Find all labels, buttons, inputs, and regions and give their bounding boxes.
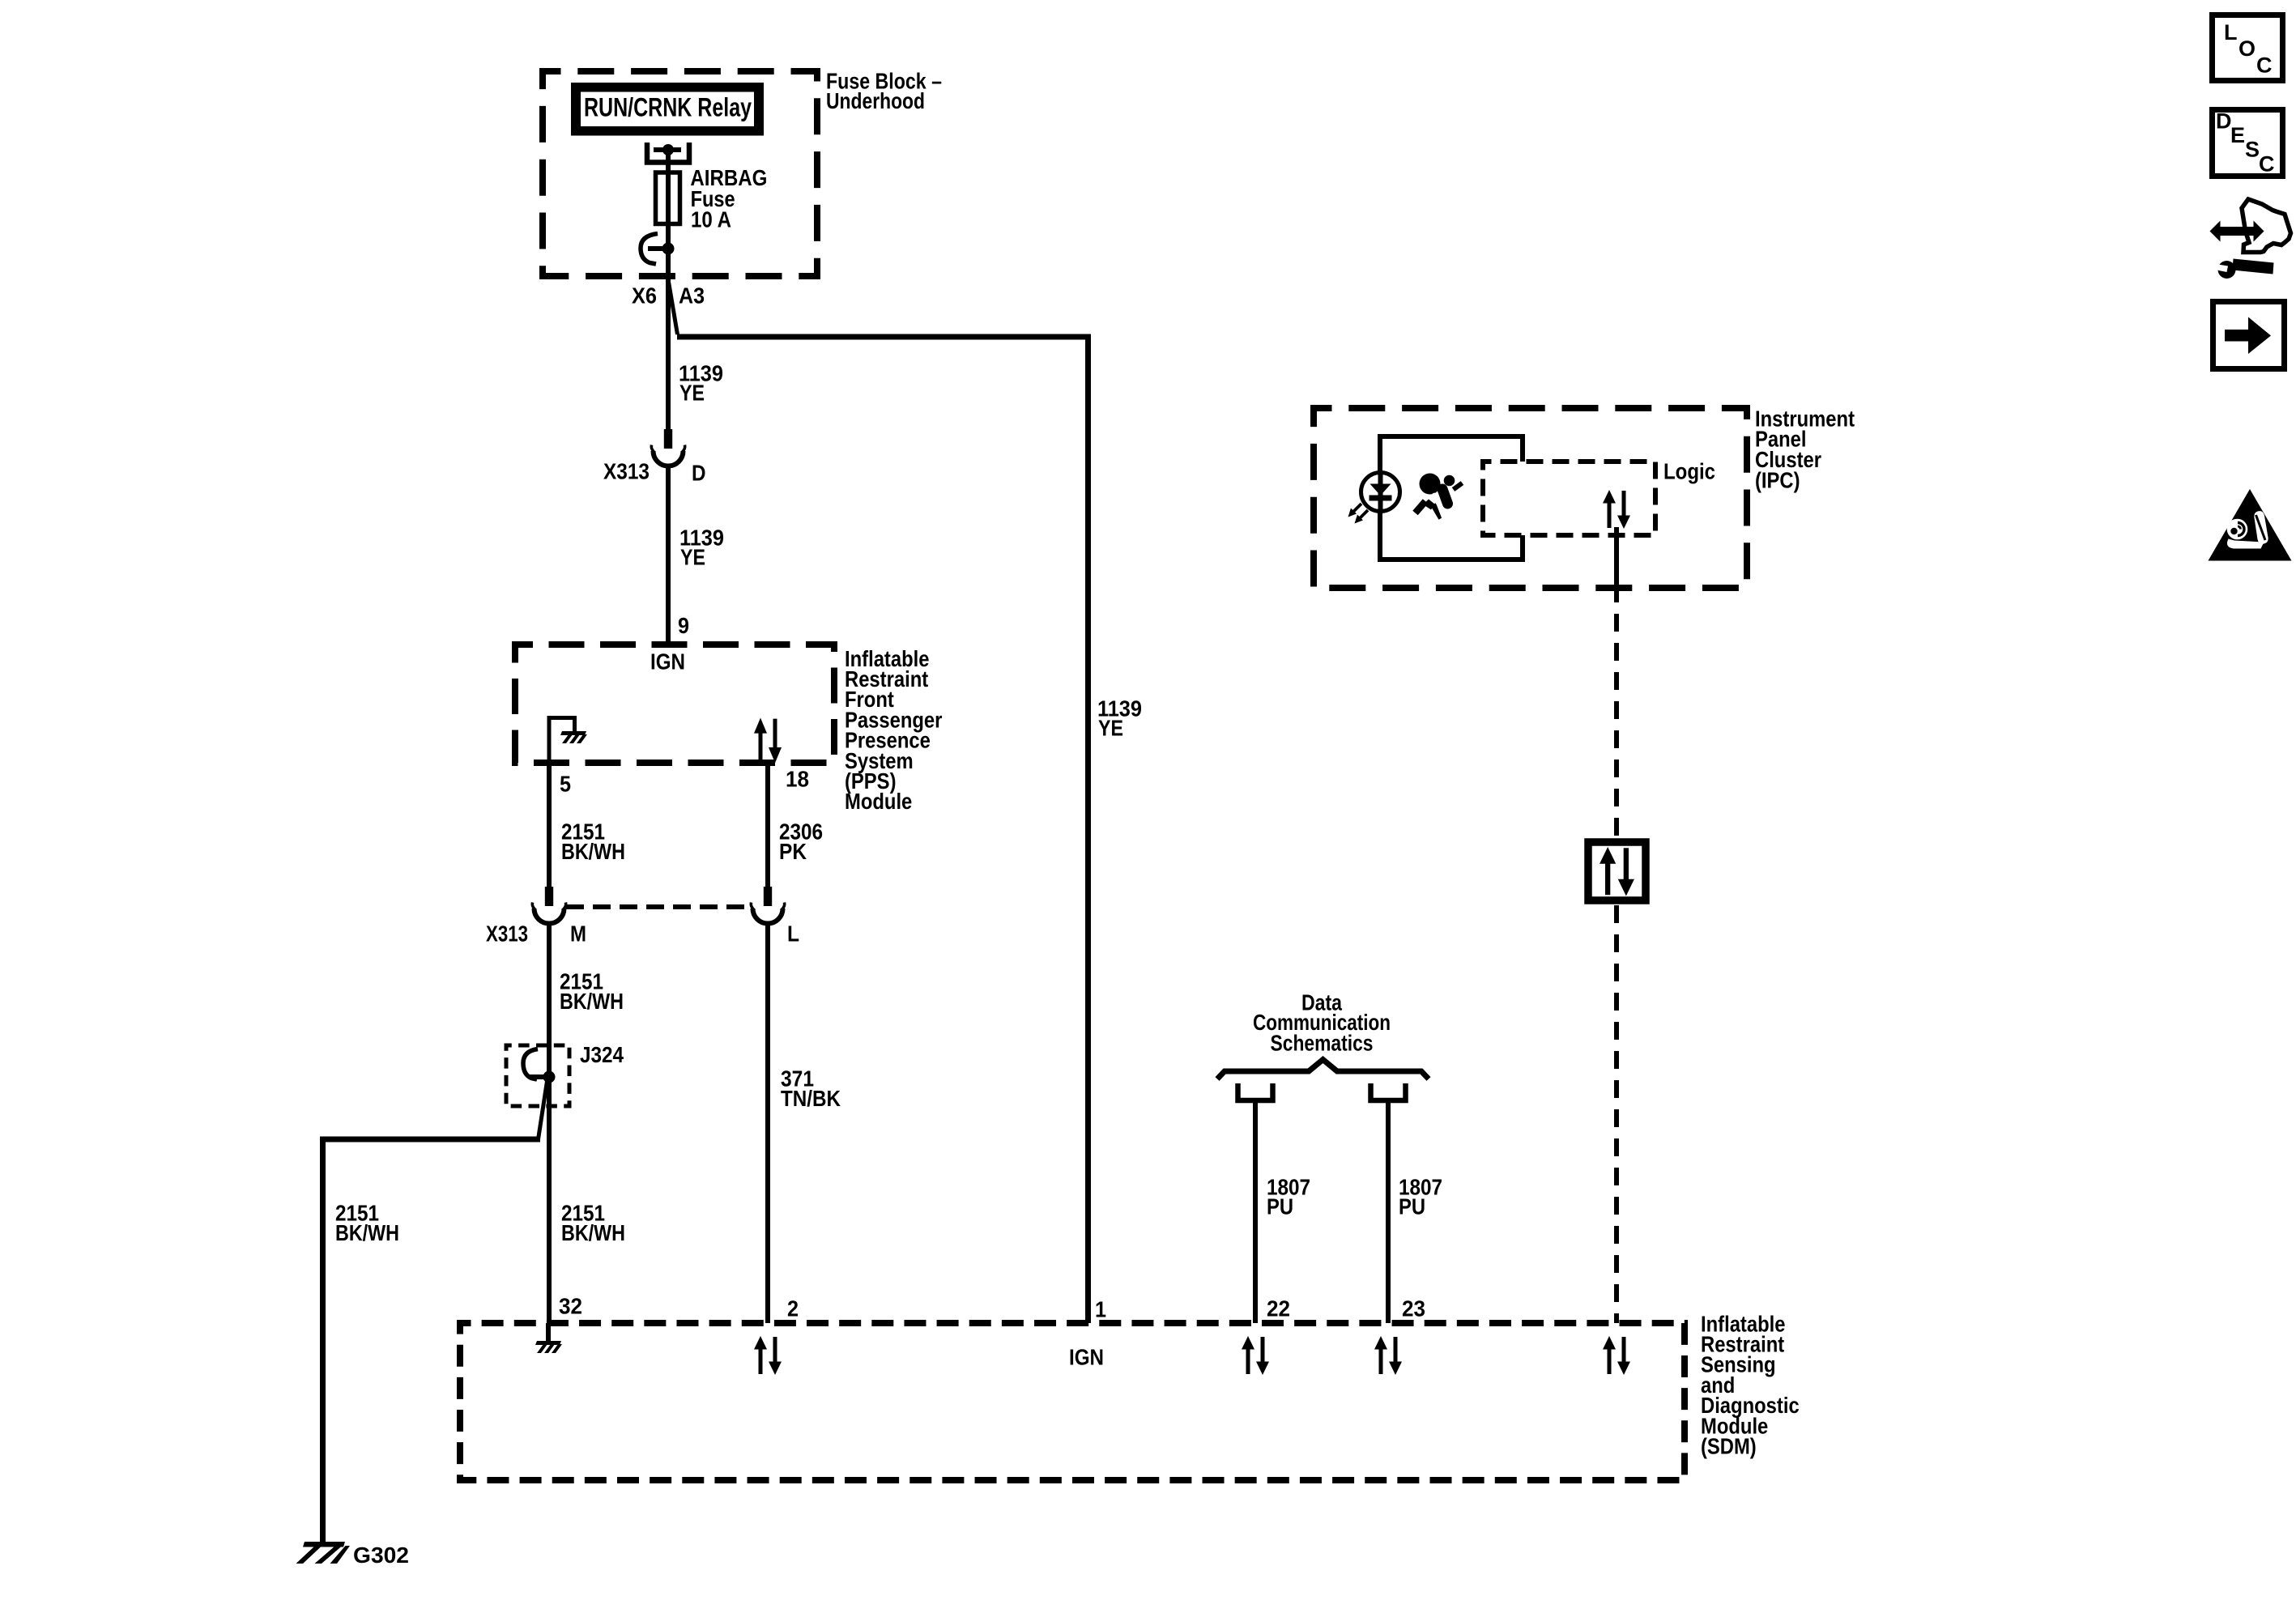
label: Inflatable Restraint Sensing and Diagnostic Module (SDM) [1701, 1311, 1800, 1458]
relay switch hook and junction dot [641, 234, 675, 265]
label: Data Communication Schematics [1253, 989, 1391, 1055]
svg-text:32: 32 [559, 1293, 582, 1318]
icon: LOC box [2213, 15, 2283, 81]
svg-text:(IPC): (IPC) [1755, 468, 1800, 493]
PPS pin 18 signal arrows [754, 718, 782, 764]
PPS module dashed box [515, 645, 834, 763]
connector X313 pin M [486, 887, 586, 946]
SDM pin 32 internal ground [535, 1323, 562, 1353]
svg-text:A3: A3 [679, 283, 705, 308]
splice J324 hook and dot [523, 1049, 556, 1083]
fuse block underhood dashed box [543, 71, 817, 276]
svg-text:18: 18 [786, 766, 809, 791]
svg-text:9: 9 [678, 613, 689, 638]
svg-text:23: 23 [1402, 1296, 1425, 1321]
data link connector (left) [1238, 1083, 1273, 1100]
svg-text:E: E [2230, 123, 2245, 147]
svg-text:BK/WH: BK/WH [335, 1220, 399, 1245]
SDM module dashed box [460, 1323, 1685, 1480]
wire 2151 BK/WH: X313 M to J324 [549, 922, 624, 1323]
icon: schematic usage (arrows, outline, wrench) [2210, 199, 2291, 279]
svg-text:BK/WH: BK/WH [561, 1220, 625, 1245]
svg-text:J324: J324 [580, 1042, 624, 1067]
wire 2306 PK: PPS pin 18 to X313 L [768, 763, 823, 887]
icon: DESC box [2213, 109, 2283, 177]
wire label 2151 BK/WH (middle run) [561, 1200, 625, 1245]
svg-text:5: 5 [560, 771, 571, 796]
wire: relay contact to fuse [666, 150, 671, 172]
wire 1139 YE: X6 to X313 D [668, 276, 723, 429]
wire 371 TN/BK: X313 L to SDM pin 2 [768, 922, 841, 1323]
connector X6 pin A3 (pass-through slant) [632, 279, 705, 334]
svg-text:X313: X313 [486, 921, 528, 946]
svg-text:L: L [2224, 20, 2238, 45]
label: Instrument Panel Cluster (IPC) [1755, 406, 1855, 492]
svg-text:Module: Module [845, 789, 912, 814]
SDM pin 23 signal arrows [1374, 1336, 1402, 1375]
PPS internal ground trace [549, 718, 575, 765]
svg-text:C: C [2256, 53, 2273, 78]
svg-text:BK/WH: BK/WH [560, 989, 624, 1014]
svg-text:YE: YE [680, 544, 705, 569]
LED emission arrows [1348, 504, 1369, 524]
wire 1807 PU (left) to SDM pin 22 [1255, 1100, 1310, 1323]
svg-text:O: O [2238, 36, 2256, 61]
icon: airbag caution triangle [2209, 489, 2292, 561]
wire 1807 PU (right) to SDM pin 23 [1388, 1100, 1442, 1323]
PPS internal chassis ground symbol [560, 731, 587, 743]
airbag warning icon (person with airbag) [1416, 474, 1463, 520]
fuse F: AIRBAG Fuse 10 A [656, 165, 768, 232]
label: Fuse Block - Underhood [826, 68, 942, 113]
svg-text:G302: G302 [353, 1543, 409, 1568]
svg-text:PK: PK [779, 839, 807, 864]
SDM serial data arrows [1603, 1336, 1630, 1375]
svg-text:Underhood: Underhood [826, 88, 925, 113]
svg-text:M: M [570, 921, 586, 946]
svg-text:BK/WH: BK/WH [561, 839, 625, 864]
svg-text:PU: PU [1399, 1194, 1425, 1219]
serial data comm symbol (boxed arrows) [1588, 842, 1646, 900]
data link connector (right) [1371, 1083, 1406, 1100]
svg-text:2: 2 [787, 1296, 799, 1321]
svg-text:TN/BK: TN/BK [781, 1086, 841, 1111]
svg-text:10 A: 10 A [691, 206, 731, 232]
svg-text:Schematics: Schematics [1271, 1030, 1374, 1055]
svg-text:PU: PU [1267, 1194, 1293, 1219]
brace [1217, 1060, 1429, 1079]
svg-text:S: S [2245, 138, 2260, 162]
SDM pin 2 signal arrows [754, 1336, 782, 1375]
svg-text:IGN: IGN [1069, 1344, 1104, 1369]
svg-text:Logic: Logic [1663, 458, 1715, 483]
logic dashed box [1483, 462, 1655, 535]
svg-text:C: C [2259, 152, 2275, 177]
svg-text:X6: X6 [632, 283, 657, 308]
wire: fuse to junction node [666, 223, 671, 279]
wire 2151 BK/WH: J324 to G302 (slant, horizontal, down) [323, 1079, 548, 1543]
wire 2151 BK/WH: PPS pin 5 to X313 M [549, 760, 625, 887]
IPC indicator circuit solid box [1380, 436, 1523, 560]
SDM pin 22 signal arrows [1242, 1336, 1269, 1375]
svg-text:YE: YE [1098, 715, 1123, 740]
connector X313 pin D [603, 429, 706, 485]
label: Inflatable Restraint Front Passenger Presence System (PPS) Module [845, 646, 942, 814]
icon: arrow box [2213, 302, 2285, 369]
svg-text:X313: X313 [603, 458, 650, 483]
svg-text:D: D [692, 460, 706, 485]
svg-text:RUN/CRNK Relay: RUN/CRNK Relay [584, 93, 752, 122]
wire 1139 YE: D to PPS pin 9 [668, 465, 724, 645]
svg-text:22: 22 [1267, 1296, 1290, 1321]
svg-text:D: D [2216, 109, 2232, 134]
wire: logic to IPC boundary (solid) [1614, 527, 1619, 602]
splice J324 dashed box [506, 1045, 569, 1106]
logic signal arrows [1603, 490, 1630, 529]
svg-text:1: 1 [1095, 1296, 1106, 1321]
svg-text:IGN: IGN [650, 649, 685, 674]
ground G302 [296, 1542, 410, 1568]
serial data dashed wire: IPC to SDM [1614, 602, 1619, 1323]
svg-text:YE: YE [679, 380, 705, 405]
svg-text:L: L [787, 921, 799, 946]
dashed connector line X313 M-L [566, 904, 752, 909]
LED indicator [1361, 470, 1400, 513]
connector X313 pin L [751, 887, 799, 946]
wire 1139 YE: A3 branch to SDM pin 1 [677, 337, 1142, 1323]
IPC dashed box [1314, 408, 1747, 588]
relay contact terminal (cup with crossbar and junction dot) [647, 143, 689, 163]
svg-text:(SDM): (SDM) [1701, 1434, 1757, 1459]
relay K: RUN/CRNK Relay [571, 83, 764, 136]
